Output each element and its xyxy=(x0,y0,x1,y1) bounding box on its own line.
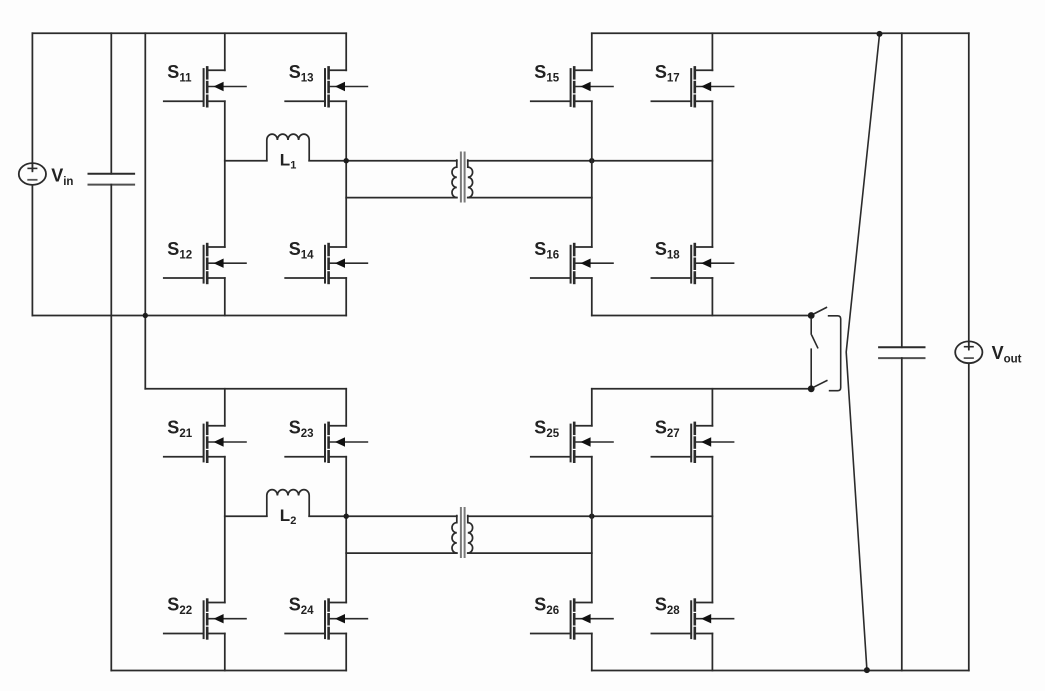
wire: S16 source column xyxy=(591,278,593,316)
switch SW2 lower terminal (to node B) xyxy=(810,349,812,386)
wire: upper-right bridge bottom bus to node A xyxy=(592,315,811,317)
transistor S17 (MOSFET) xyxy=(651,62,733,107)
wire: S27 drain column xyxy=(711,389,713,426)
wire: T1 secondary return xyxy=(468,197,592,199)
wire: diagonal link from top bus through switches to bottom bus xyxy=(846,34,879,669)
wire: bridge-1 midpoint to L1 xyxy=(225,160,267,162)
wire: L2 to transformer T2 primary xyxy=(309,515,457,517)
transistor S26 (MOSFET) xyxy=(531,594,613,639)
transformer T1 secondary winding xyxy=(468,160,473,198)
transistor S11 (MOSFET) xyxy=(164,62,246,107)
voltage source Vin xyxy=(19,163,74,188)
wire: right midpoint column xyxy=(711,101,713,247)
wire: left midpoint column xyxy=(224,101,226,247)
transistor S18 (MOSFET) xyxy=(651,239,733,284)
wire: left midpoint column xyxy=(591,457,593,603)
switch SW2 upper terminal (from node A) xyxy=(810,319,812,335)
wire: S26 source column xyxy=(591,634,593,671)
wire: lower-left bridge top bus xyxy=(145,388,346,390)
wire: input rail vertical xyxy=(144,33,146,389)
transformer T2 core xyxy=(461,507,465,558)
inductor L2 xyxy=(267,490,309,528)
wire: Vout bottom lead xyxy=(968,363,970,670)
wire: Vin bottom lead xyxy=(31,185,33,316)
capacitor Cin top lead xyxy=(110,33,112,174)
wire: top output bus (Vout+ rail) xyxy=(592,32,969,34)
wire: S23 drain column xyxy=(345,389,347,426)
wire: S13 drain column xyxy=(345,33,347,70)
node: junction on S15/S16 column xyxy=(589,158,594,163)
node: junction on S23/S24 column xyxy=(344,514,349,519)
wire: S17 drain column xyxy=(711,33,713,70)
switch SW1 right terminal and bar to SW3 terminal xyxy=(829,316,841,391)
transformer T2 secondary winding xyxy=(468,516,473,554)
node: top bus tap for diagonal xyxy=(877,31,883,37)
wire: T2 primary return xyxy=(346,552,457,554)
wire: Vin top lead xyxy=(31,33,33,171)
wire: S11 drain column xyxy=(224,33,226,70)
transistor S23 (MOSFET) xyxy=(285,418,367,463)
wire: top input bus (Vin+ rail) xyxy=(32,32,346,34)
transistor S27 (MOSFET) xyxy=(651,418,733,463)
wire: right midpoint column xyxy=(345,457,347,603)
wire: left midpoint column xyxy=(224,457,226,603)
wire: bridge-2 midpoint to L2 xyxy=(225,515,267,517)
wire: S24 source column xyxy=(345,634,347,671)
transistor S16 (MOSFET) xyxy=(531,239,613,284)
transistor S14 (MOSFET) xyxy=(285,239,367,284)
node: junction on S25/S26 column xyxy=(589,514,594,519)
capacitor Cout top lead xyxy=(901,33,903,347)
transformer T2 primary winding xyxy=(452,516,457,554)
wire: S25 drain column xyxy=(591,389,593,426)
switch SW2 blade xyxy=(812,335,818,347)
inductor L1 xyxy=(267,134,309,172)
capacitor Cin xyxy=(89,174,135,185)
wire: L1 to transformer T1 primary xyxy=(309,160,457,162)
wire: T2 secondary return xyxy=(468,552,592,554)
wire: S22 source column xyxy=(224,634,226,671)
transistor S21 (MOSFET) xyxy=(164,418,246,463)
capacitor Cout xyxy=(879,347,924,358)
wire: T1 secondary to upper-right bridge xyxy=(468,160,713,162)
wire: upper-left bridge bottom bus xyxy=(32,315,346,317)
node A (upper bridge output) xyxy=(808,312,815,319)
transistor S13 (MOSFET) xyxy=(285,62,367,107)
node: junction on S13/S14 column xyxy=(344,158,349,163)
transistor S25 (MOSFET) xyxy=(531,418,613,463)
switch SW1 blade (node A) xyxy=(815,308,827,314)
wire: Vout top lead xyxy=(968,33,970,349)
switch SW3 blade (node B) xyxy=(815,381,827,387)
wire: S14 source column xyxy=(345,278,347,316)
wire: T2 secondary to lower-right bridge xyxy=(468,515,713,517)
wire: bottom-left bus xyxy=(111,670,346,672)
transistor S12 (MOSFET) xyxy=(164,239,246,284)
transformer T1 core xyxy=(461,152,465,203)
wire: lower-right bridge top bus to node B xyxy=(592,388,811,390)
capacitor Cin bottom lead xyxy=(110,185,112,671)
transformer T1 primary winding xyxy=(452,160,457,198)
transistor S22 (MOSFET) xyxy=(164,594,246,639)
wire: T1 primary return xyxy=(346,197,457,199)
wire: S18 source column xyxy=(711,278,713,316)
transistor S24 (MOSFET) xyxy=(285,594,367,639)
transistor S15 (MOSFET) xyxy=(531,62,613,107)
wire: S12 source column xyxy=(224,278,226,316)
node: junction of input rail and mid bus xyxy=(143,313,148,318)
wire: S28 source column xyxy=(711,634,713,671)
wire: S15 drain column xyxy=(591,33,593,70)
node B (lower bridge output) xyxy=(808,385,815,392)
node: bottom bus tap for diagonal xyxy=(864,667,870,673)
capacitor Cout bottom lead xyxy=(901,358,903,670)
wire: left midpoint column xyxy=(591,101,593,247)
transistor S28 (MOSFET) xyxy=(651,594,733,639)
wire: right midpoint column xyxy=(711,457,713,603)
wire: right midpoint column xyxy=(345,101,347,247)
wire: S21 drain column xyxy=(224,389,226,426)
voltage source Vout xyxy=(955,341,1021,365)
wire: bottom output bus xyxy=(592,670,969,672)
